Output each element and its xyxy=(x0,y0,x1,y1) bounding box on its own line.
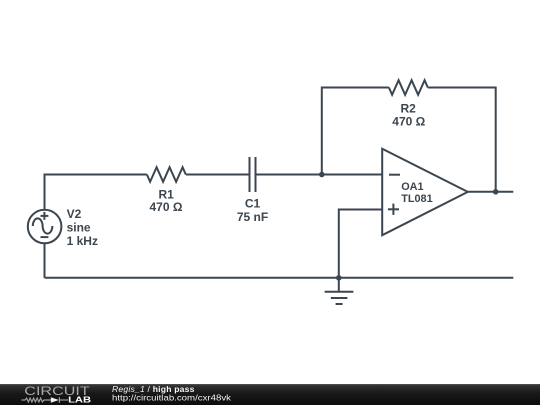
V2 minus sign xyxy=(41,236,49,238)
svg-text:470 Ω: 470 Ω xyxy=(150,200,183,214)
node: output junction xyxy=(493,189,499,195)
CircuitLab logo xyxy=(0,384,240,405)
wire: bottom rail xyxy=(45,277,514,279)
capacitor C1 xyxy=(249,157,251,192)
svg-text:75 nF: 75 nF xyxy=(237,210,268,224)
ground xyxy=(338,278,340,292)
svg-text:TL081: TL081 xyxy=(401,193,432,205)
svg-text:LAB: LAB xyxy=(68,396,91,405)
svg-text:sine: sine xyxy=(67,221,91,235)
node: ground junction xyxy=(336,275,342,281)
svg-text:1 kHz: 1 kHz xyxy=(67,234,98,248)
wire: op-amp + input to ground rail xyxy=(339,210,382,278)
diode glyph xyxy=(51,397,59,403)
svg-text:R2: R2 xyxy=(401,101,417,115)
svg-text:OA1: OA1 xyxy=(401,181,423,193)
node: feedback junction xyxy=(319,172,325,178)
op-amp OA1 triangle xyxy=(382,149,468,236)
footer bar xyxy=(0,384,540,405)
svg-text:470 Ω: 470 Ω xyxy=(392,114,425,128)
svg-text:V2: V2 xyxy=(67,207,82,221)
wire: R1 to C1 xyxy=(186,174,250,176)
wire: feedback up and across to R2 xyxy=(322,88,389,175)
wire: op-amp output xyxy=(468,191,514,193)
wire: C1 to op-amp inverting input xyxy=(256,174,383,176)
resistor R1 xyxy=(147,167,186,182)
wire: V2 bottom to rail xyxy=(44,243,46,278)
op-amp plus input symbol xyxy=(388,208,399,210)
wire: V2 top up and across to R1 xyxy=(45,175,147,211)
svg-text:http://circuitlab.com/cxr48vk: http://circuitlab.com/cxr48vk xyxy=(112,392,232,402)
svg-text:C1: C1 xyxy=(245,197,261,211)
V2 plus sign xyxy=(41,215,49,217)
V2 sine wave xyxy=(33,218,53,233)
wire: R2 to output node xyxy=(428,88,496,192)
voltage source V2 xyxy=(28,210,62,244)
resistor R2 xyxy=(389,80,428,95)
op-amp minus input symbol xyxy=(389,174,400,176)
